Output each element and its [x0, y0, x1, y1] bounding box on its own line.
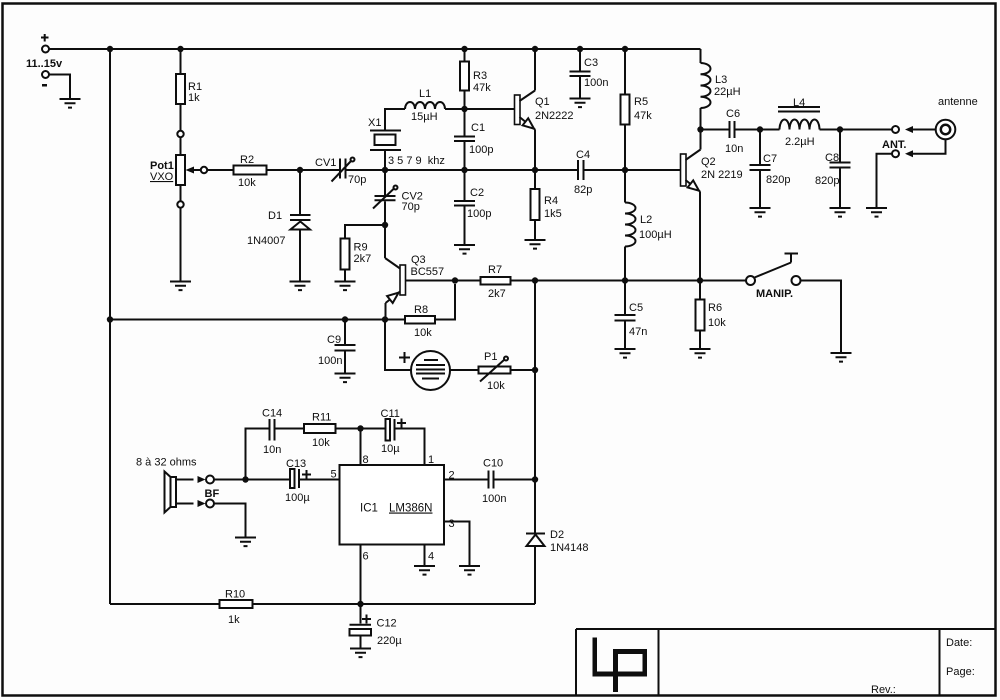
- svg-text:R3: R3: [473, 70, 487, 82]
- microphone: [385, 320, 450, 391]
- svg-text:R2: R2: [240, 154, 254, 166]
- node C6/C7 junction: [757, 126, 763, 132]
- svg-text:820p: 820p: [815, 175, 839, 187]
- svg-text:100p: 100p: [467, 208, 491, 220]
- svg-text:Q2: Q2: [701, 156, 716, 168]
- ground C12: [350, 649, 371, 658]
- resistor R7: [455, 264, 746, 300]
- svg-text:8: 8: [363, 454, 369, 466]
- capacitor C7: [750, 130, 791, 209]
- resistor R3: [460, 49, 491, 109]
- transistor Q2 2N2219: [681, 130, 743, 281]
- node Q3 emitter/mic junction: [382, 316, 388, 322]
- resistor R9: [341, 225, 386, 282]
- svg-text:10k: 10k: [312, 437, 330, 449]
- resistor R10: [110, 589, 535, 627]
- battery + terminal: [41, 34, 49, 53]
- wire pot to ground: [180, 208, 182, 282]
- svg-text:BC557: BC557: [411, 266, 445, 278]
- wire V+ top rail: [49, 48, 701, 50]
- inductor L3: [701, 49, 741, 130]
- node C9 junction: [342, 316, 348, 322]
- svg-text:R4: R4: [544, 195, 558, 207]
- resistor R8: [405, 284, 455, 339]
- svg-text:X1: X1: [368, 117, 381, 129]
- capacitor C11: [361, 408, 425, 465]
- svg-text:Q1: Q1: [535, 96, 550, 108]
- svg-text:100n: 100n: [318, 355, 342, 367]
- wire pin 4 to ground: [424, 545, 426, 567]
- ground BF: [235, 538, 256, 547]
- svg-text:2N2222: 2N2222: [535, 110, 574, 122]
- logo LP: [593, 638, 648, 693]
- svg-text:47n: 47n: [629, 326, 647, 338]
- capacitor C10: [444, 458, 535, 506]
- svg-text:10k: 10k: [708, 317, 726, 329]
- svg-text:5: 5: [331, 469, 337, 481]
- svg-text:C10: C10: [483, 458, 503, 470]
- terminal BF upper: [198, 476, 246, 484]
- node C12 junction: [357, 601, 363, 607]
- svg-text:D2: D2: [550, 529, 564, 541]
- ground pot: [170, 282, 191, 291]
- svg-text:L4: L4: [793, 97, 805, 109]
- svg-text:R7: R7: [488, 264, 502, 276]
- svg-text:47k: 47k: [634, 110, 652, 122]
- ground MANIP: [831, 353, 852, 362]
- svg-text:Rev.:: Rev.:: [871, 684, 896, 696]
- capacitor C14: [246, 408, 305, 480]
- svg-text:100n: 100n: [584, 77, 608, 89]
- wire ANT lower to ground: [877, 154, 893, 208]
- capacitor C9: [318, 320, 356, 374]
- node CV2/R9 junction: [382, 222, 388, 228]
- svg-text:R10: R10: [225, 589, 245, 601]
- svg-text:L1: L1: [419, 88, 431, 100]
- svg-text:Page:: Page:: [946, 666, 975, 678]
- svg-text:ANT.: ANT.: [882, 139, 906, 151]
- inductor L4: [760, 97, 840, 148]
- svg-text:C6: C6: [726, 108, 740, 120]
- node C10/D2 junction: [532, 476, 538, 482]
- capacitor C8: [815, 130, 851, 209]
- svg-text:22µH: 22µH: [714, 86, 741, 98]
- variable capacitor CV2: [373, 170, 423, 225]
- wire C8 to ANT terminal: [840, 129, 892, 131]
- svg-text:R6: R6: [708, 302, 722, 314]
- capacitor C3: [570, 49, 609, 99]
- svg-text:3 5 7 9 khz: 3 5 7 9 khz: [388, 155, 445, 167]
- wire pin 6 down: [360, 545, 362, 605]
- svg-text:2k7: 2k7: [488, 288, 506, 300]
- svg-text:100p: 100p: [469, 144, 493, 156]
- svg-text:15µH: 15µH: [411, 111, 438, 123]
- svg-text:C7: C7: [763, 153, 777, 165]
- wire oscillator rail y170: [385, 169, 535, 171]
- switch MANIP: [746, 254, 801, 301]
- node left rail junction: [107, 316, 113, 322]
- node P1 junction: [532, 367, 538, 373]
- svg-text:100n: 100n: [482, 493, 506, 505]
- capacitor C1: [454, 109, 493, 170]
- transistor Q1 2N2222: [515, 49, 574, 170]
- wire mic rail y319.5: [110, 319, 405, 321]
- wire antenna to ANT lower: [913, 139, 946, 153]
- svg-text:R8: R8: [414, 304, 428, 316]
- svg-text:10n: 10n: [263, 444, 281, 456]
- ground ANT: [866, 208, 887, 217]
- resistor R11: [304, 412, 361, 450]
- svg-text:Q3: Q3: [411, 254, 426, 266]
- wire R5 junction to Q2 base: [625, 169, 681, 171]
- capacitor C5: [615, 281, 648, 350]
- antenna coax connector: [936, 96, 978, 139]
- ground pin4: [414, 566, 435, 575]
- terminal ANT upper: [892, 126, 936, 133]
- svg-text:4: 4: [428, 551, 434, 563]
- svg-text:8 à 32 ohms: 8 à 32 ohms: [136, 457, 197, 469]
- svg-text:1k: 1k: [228, 614, 240, 626]
- svg-text:C2: C2: [470, 187, 484, 199]
- svg-text:820p: 820p: [766, 174, 790, 186]
- capacitor C6: [701, 108, 761, 155]
- svg-text:C14: C14: [262, 408, 282, 420]
- resistor R6: [696, 281, 727, 350]
- crystal X1 3579 khz: [368, 109, 445, 170]
- variable capacitor CV1: [300, 157, 385, 186]
- transistor Q3 BC557: [385, 225, 455, 320]
- inductor L2: [625, 170, 672, 281]
- svg-text:BF: BF: [205, 488, 220, 500]
- svg-text:3: 3: [449, 518, 455, 530]
- ground C8: [830, 208, 851, 217]
- capacitor C12: [350, 604, 403, 649]
- resistor R1: [176, 49, 202, 137]
- svg-text:C9: C9: [327, 334, 341, 346]
- svg-text:IC1: IC1: [360, 503, 378, 515]
- svg-text:220µ: 220µ: [377, 635, 402, 647]
- svg-text:D1: D1: [268, 210, 282, 222]
- svg-text:C3: C3: [584, 57, 598, 69]
- node R5/L2 junction: [622, 167, 628, 173]
- svg-text:C4: C4: [576, 149, 590, 161]
- svg-text:CV1: CV1: [315, 157, 336, 169]
- svg-text:antenne: antenne: [938, 96, 978, 108]
- svg-text:2k7: 2k7: [354, 253, 372, 265]
- wire BF lower to ground: [214, 504, 246, 538]
- op-amp IC1 LM386N: [340, 465, 445, 545]
- svg-text:L2: L2: [640, 214, 652, 226]
- ground R6: [690, 349, 711, 358]
- node R7/key line junction: [532, 277, 538, 283]
- wire switch to ground: [801, 281, 842, 354]
- resistor R2: [207, 154, 300, 189]
- svg-text:C1: C1: [471, 122, 485, 134]
- svg-text:C12: C12: [377, 618, 397, 630]
- wire left rail: [109, 49, 111, 604]
- node Q2 emitter junction: [697, 277, 703, 283]
- svg-text:70p: 70p: [402, 201, 420, 213]
- node L3/Q2 collector junction: [697, 126, 703, 132]
- svg-text:82p: 82p: [574, 184, 592, 196]
- node Q1 emitter junction: [532, 167, 538, 173]
- ground pin3: [459, 566, 480, 575]
- svg-text:6: 6: [363, 551, 369, 563]
- node C5 junction: [622, 277, 628, 283]
- ground C2: [454, 245, 475, 254]
- svg-text:100µ: 100µ: [285, 492, 310, 504]
- ground battery: [60, 99, 81, 108]
- trimmer P1: [450, 351, 535, 392]
- capacitor C4: [535, 149, 625, 196]
- inductor L1: [405, 88, 515, 123]
- svg-text:10k: 10k: [238, 177, 256, 189]
- node R11/pin8 junction: [357, 425, 363, 431]
- svg-text:L3: L3: [715, 74, 727, 86]
- svg-text:R5: R5: [634, 96, 648, 108]
- resistor R4: [531, 170, 562, 240]
- ground R4: [525, 240, 546, 249]
- node Q3 base junction: [452, 277, 458, 283]
- terminal BF lower: [198, 500, 215, 508]
- svg-text:1k: 1k: [188, 92, 200, 104]
- terminal ANT lower: [892, 150, 913, 157]
- node L4/C8 junction: [837, 126, 843, 132]
- capacitor C2: [454, 170, 491, 245]
- node speaker/C13 junction: [242, 476, 248, 482]
- ground C9: [335, 374, 356, 383]
- diode D1: [247, 170, 311, 282]
- svg-text:47k: 47k: [473, 82, 491, 94]
- ground C5: [615, 349, 636, 358]
- svg-text:1: 1: [428, 454, 434, 466]
- node L1/R3 junction: [461, 106, 467, 112]
- svg-text:MANIP.: MANIP.: [756, 288, 793, 300]
- capacitor C13: [246, 458, 340, 504]
- svg-text:10k: 10k: [414, 327, 432, 339]
- svg-text:P1: P1: [484, 351, 497, 363]
- title block frame: [576, 629, 996, 696]
- svg-text:LM386N: LM386N: [389, 503, 432, 515]
- svg-text:10n: 10n: [725, 143, 743, 155]
- svg-text:C8: C8: [825, 152, 839, 164]
- ground C7: [750, 208, 771, 217]
- svg-text:VXO: VXO: [150, 171, 174, 183]
- svg-text:C11: C11: [381, 408, 400, 420]
- node R2/D1 junction: [297, 167, 303, 173]
- svg-text:Date:: Date:: [946, 637, 972, 649]
- svg-text:1k5: 1k5: [544, 208, 562, 220]
- svg-text:70p: 70p: [348, 174, 366, 186]
- svg-text:100µH: 100µH: [639, 229, 672, 241]
- wire pin 3 to ground: [444, 522, 470, 567]
- resistor R5: [621, 49, 653, 170]
- svg-text:10k: 10k: [487, 380, 505, 392]
- speaker: [136, 457, 197, 513]
- diode D2: [526, 529, 589, 604]
- svg-text:C5: C5: [629, 302, 643, 314]
- svg-text:2.2µH: 2.2µH: [785, 136, 815, 148]
- svg-text:2N 2219: 2N 2219: [701, 169, 743, 181]
- ground R9: [335, 282, 356, 291]
- wire key vertical line x535: [534, 281, 536, 533]
- svg-text:1N4148: 1N4148: [550, 542, 589, 554]
- svg-text:R11: R11: [312, 412, 331, 424]
- svg-text:R9: R9: [354, 242, 368, 254]
- svg-text:11..15v: 11..15v: [26, 58, 63, 70]
- svg-text:1N4007: 1N4007: [247, 235, 286, 247]
- node C1/C2 junction: [461, 167, 467, 173]
- battery - terminal: [42, 71, 70, 99]
- ground D1: [290, 282, 311, 291]
- wire pin 8: [360, 429, 362, 466]
- svg-text:C13: C13: [286, 458, 306, 470]
- node top rail junctions: [107, 46, 628, 52]
- ground C3: [570, 99, 591, 108]
- potentiometer Pot1 VXO: [150, 137, 207, 208]
- node X1/CV1/CV2 junction: [382, 167, 388, 173]
- svg-text:10µ: 10µ: [381, 443, 400, 455]
